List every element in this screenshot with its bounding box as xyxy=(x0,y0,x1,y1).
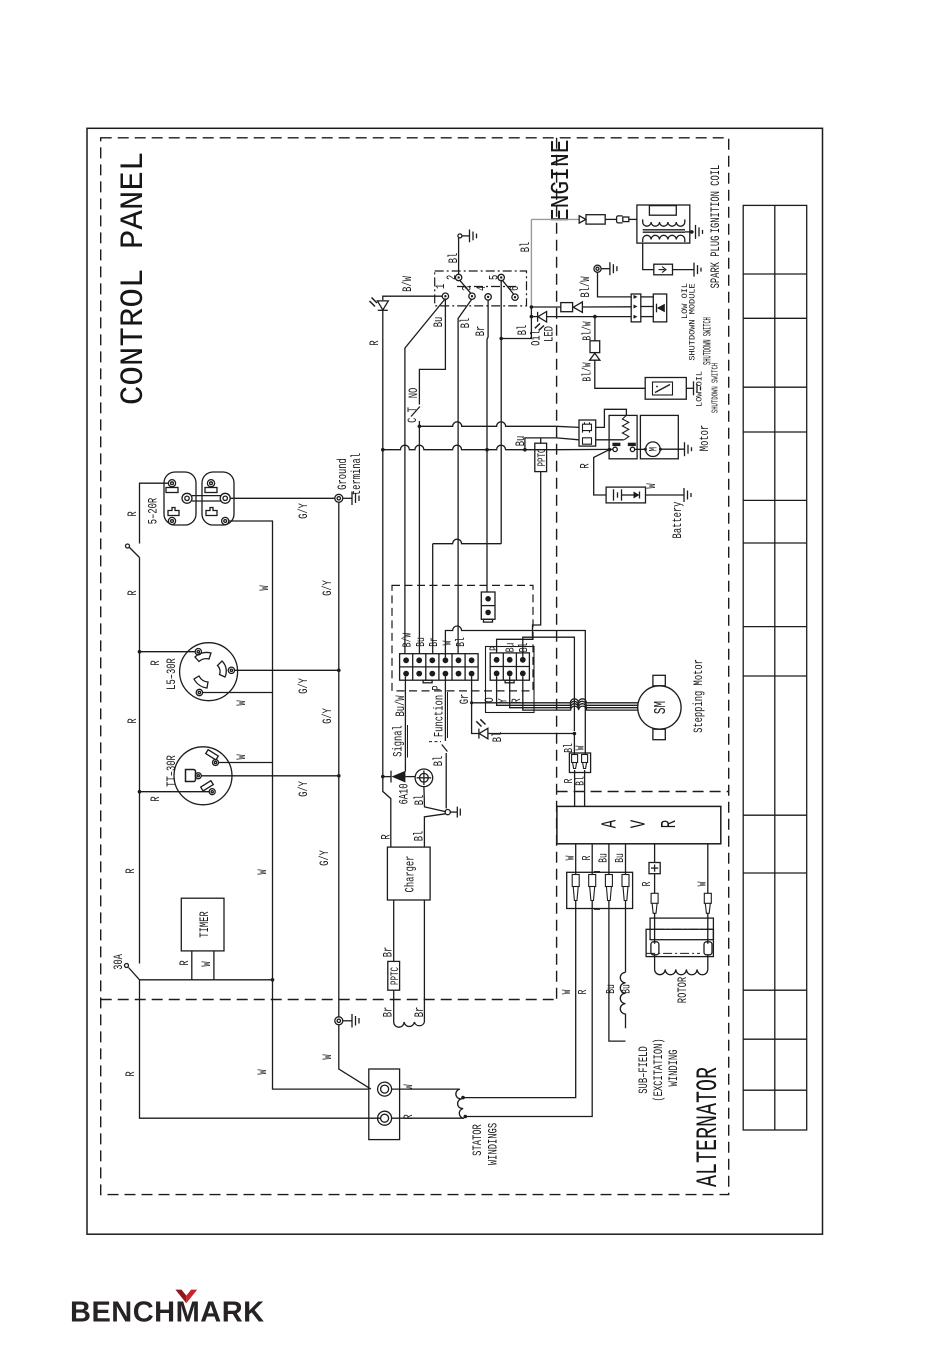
junction R row at Br wire xyxy=(485,448,489,452)
wire stator R to winding xyxy=(392,1117,464,1119)
signal connector pins xyxy=(403,657,474,676)
AVR connector box xyxy=(567,872,633,908)
junction charge LED / Bl xyxy=(573,732,577,736)
svg-text:P: P xyxy=(489,646,502,651)
svg-text:W: W xyxy=(697,881,710,886)
L5-30R screw R xyxy=(195,649,201,655)
parts table grid xyxy=(743,205,807,1130)
wire Bu diagonal from pin 1 xyxy=(405,299,446,654)
svg-text:LED: LED xyxy=(543,326,557,342)
wire W from TT-30R xyxy=(219,762,273,764)
breaker 30A on R bus xyxy=(125,964,129,968)
stepping motor body xyxy=(638,686,681,729)
PPTC (control) body xyxy=(535,443,547,471)
svg-text:G/Y: G/Y xyxy=(298,781,312,797)
wire Bl/W drop to low-oil switch xyxy=(594,317,596,341)
svg-text:Bu: Bu xyxy=(515,436,529,447)
wire Bu field 1 xyxy=(609,900,626,1041)
function underline xyxy=(447,692,449,738)
wire diode to DC terminal xyxy=(405,776,415,778)
stepper harness R xyxy=(513,704,638,708)
connector group dashed box xyxy=(392,585,533,691)
svg-text:Signal: Signal xyxy=(392,725,406,757)
ignition coil core xyxy=(643,229,685,231)
wire R bus lower xyxy=(139,792,141,964)
stepper connector pins xyxy=(494,657,526,676)
wire R bus to stator xyxy=(140,980,382,1118)
5-20R left outlet top screw xyxy=(168,480,175,487)
svg-text:WINDINGS: WINDINGS xyxy=(487,1123,501,1165)
svg-text:6A10: 6A10 xyxy=(398,783,412,804)
wire signal Bu/W drop xyxy=(404,677,406,761)
svg-text:IGNITION COIL: IGNITION COIL xyxy=(710,165,724,234)
svg-text:R: R xyxy=(127,511,141,516)
wire W from L5-30R to W bus xyxy=(203,692,273,694)
svg-text:Bl: Bl xyxy=(574,776,588,786)
wire AVR Bu lead 1 xyxy=(608,844,610,874)
wires strip to module xyxy=(641,297,654,317)
TT-30R slot bottom xyxy=(201,781,214,791)
stepper harness O xyxy=(472,699,638,703)
wire stator W to winding xyxy=(392,1088,460,1090)
ignition coil box xyxy=(637,205,690,243)
svg-text:B/W: B/W xyxy=(401,632,415,647)
stator winding xyxy=(456,1089,464,1118)
bullet connector (low-oil switch) xyxy=(590,341,600,353)
wire G/Y from L5-30R xyxy=(235,669,339,671)
svg-text:terminal: terminal xyxy=(351,453,365,495)
wire Bl from pin 2 to ground xyxy=(458,238,460,274)
junction R row at Bu drop xyxy=(523,448,527,452)
junction R row at R wire xyxy=(381,448,385,452)
svg-text:CONTROL PANEL: CONTROL PANEL xyxy=(115,152,152,406)
wire G/Y bus xyxy=(338,502,340,1017)
diode 6A10 xyxy=(381,775,385,779)
AVR box xyxy=(557,806,721,843)
wire Br lane down xyxy=(432,544,434,654)
rotor slip ring box lower xyxy=(646,929,713,956)
wire starter row into engine xyxy=(557,426,579,427)
svg-text:Bu: Bu xyxy=(433,317,447,328)
wire W from 5-20R to W bus xyxy=(229,521,273,980)
svg-text:NO: NO xyxy=(408,388,422,399)
junction oil LED tap xyxy=(530,315,534,319)
stepping motor tab top xyxy=(653,675,665,686)
svg-text:W: W xyxy=(562,989,575,994)
svg-text:M: M xyxy=(647,447,660,452)
svg-text:Bl: Bl xyxy=(455,637,469,647)
svg-text:R: R xyxy=(642,882,655,887)
wire function Bl drop xyxy=(444,677,446,742)
function switch blade xyxy=(442,745,448,752)
svg-text:SHUTDOWN MODULE: SHUTDOWN MODULE xyxy=(688,283,698,360)
svg-text:W: W xyxy=(236,700,250,705)
svg-text:WINDING: WINDING xyxy=(668,1049,682,1086)
low oil module box xyxy=(653,294,666,322)
wire O drop xyxy=(497,676,500,705)
wire W col4 top across xyxy=(445,626,585,657)
stepper harness 4 xyxy=(526,706,638,710)
spark plug body xyxy=(654,264,673,275)
pin 2 xyxy=(455,274,461,280)
wire switch to ground xyxy=(686,387,693,389)
rotor winding xyxy=(654,955,656,970)
TIMER box xyxy=(181,898,224,951)
wire oil LED row xyxy=(531,316,537,318)
svg-text:W: W xyxy=(257,1069,271,1074)
wire charger Bl lead down xyxy=(423,900,425,1022)
switch blade pin5-pin6 xyxy=(502,280,514,294)
svg-text:B/W: B/W xyxy=(402,276,416,292)
svg-text:LOW OIL: LOW OIL xyxy=(695,371,705,407)
wire AVR W2 lead xyxy=(707,844,709,894)
svg-text:W: W xyxy=(565,855,578,860)
svg-text:ALTERNATOR: ALTERNATOR xyxy=(691,1067,725,1187)
ignition coil HT cap xyxy=(649,206,676,216)
svg-text:30A: 30A xyxy=(113,954,127,970)
pin 1 xyxy=(442,293,448,299)
charger box xyxy=(387,847,430,900)
5-20R left outlet hot slot xyxy=(168,508,179,516)
svg-text:W: W xyxy=(259,585,273,590)
wire Bl diagonal from pin 3 xyxy=(458,299,472,654)
svg-text:Bu: Bu xyxy=(598,853,611,863)
wire sender to module pin1 xyxy=(598,272,632,297)
svg-text:BENCHMARK: BENCHMARK xyxy=(70,1297,265,1329)
junction Gr branch xyxy=(470,701,473,704)
wire PPTC to charge coil xyxy=(393,990,395,1022)
svg-text:Bl: Bl xyxy=(448,253,462,264)
pin 3 xyxy=(469,293,475,299)
wire DC terminal down to switch xyxy=(424,787,446,812)
wire pin5 row to Br lane xyxy=(433,539,502,544)
battery box xyxy=(606,487,645,503)
svg-text:Br: Br xyxy=(382,947,396,958)
engine switch inner divider xyxy=(457,286,516,288)
svg-text:W: W xyxy=(442,640,455,645)
wire W bus to stator xyxy=(273,980,369,1089)
junction stator sense W xyxy=(461,1096,465,1100)
jumper connector 2-pin xyxy=(481,592,495,619)
stepper connector housing xyxy=(486,647,535,713)
ground symbol (spark plug) xyxy=(694,263,701,277)
stepping motor tab bottom xyxy=(653,729,665,740)
wire motor to ground xyxy=(660,448,684,450)
DC switch common contact xyxy=(445,810,450,815)
bullet W xyxy=(572,875,579,901)
wire timer W pin xyxy=(213,951,215,980)
wire battery to ground xyxy=(646,494,685,496)
wire B/W pin1 to output LED xyxy=(383,296,442,300)
output LED xyxy=(377,301,388,310)
junction G/Y at TT-30R xyxy=(337,774,341,778)
bullet pair (AVR sense) xyxy=(569,753,590,773)
svg-text:Br: Br xyxy=(414,1007,428,1018)
svg-text:P: P xyxy=(431,685,445,690)
wire ground strap between outlets xyxy=(192,495,221,497)
svg-text:R: R xyxy=(150,660,164,665)
BENCHMARK logo chevron left xyxy=(175,1290,186,1304)
svg-text:1: 1 xyxy=(435,284,449,289)
dashed schematic frame xyxy=(101,138,729,1195)
svg-text:L5–30R: L5–30R xyxy=(166,658,180,690)
svg-text:Bl/W: Bl/W xyxy=(580,276,594,297)
wire Br from pin 4 xyxy=(487,300,488,450)
charge coil xyxy=(394,1022,425,1027)
svg-text:Bu: Bu xyxy=(416,637,429,647)
wire AVR fuse lead xyxy=(654,844,656,863)
brush right xyxy=(704,942,712,955)
svg-text:Bl: Bl xyxy=(517,325,531,336)
receptacle 5-20R duplex right outlet body xyxy=(202,472,234,525)
svg-text:SHUTDOWN SWITCH: SHUTDOWN SWITCH xyxy=(702,317,715,365)
wire jumper to R row xyxy=(486,450,488,592)
5-20R right outlet top screw xyxy=(207,480,214,487)
oil sender terminal xyxy=(594,265,601,272)
bullet connector (shutdown) xyxy=(561,303,573,312)
DC output terminal xyxy=(415,769,433,787)
junction CT contact xyxy=(418,425,422,429)
svg-text:Oil: Oil xyxy=(530,330,544,346)
engine switch connector box xyxy=(435,271,527,306)
svg-text:W: W xyxy=(646,483,660,488)
bullet R xyxy=(589,875,596,901)
svg-text:V: V xyxy=(628,820,652,829)
wire shutdown switch row xyxy=(531,306,560,308)
TT-30R center screw xyxy=(195,773,201,779)
wire charge LED right to Bl xyxy=(488,733,575,735)
5-20R right outlet neutral slot xyxy=(205,488,217,493)
relay contacts xyxy=(613,447,617,451)
svg-text:Bl/W: Bl/W xyxy=(581,321,595,341)
wire relay to starter motor xyxy=(635,448,647,450)
outer drawing frame xyxy=(87,128,823,1234)
wire R drop xyxy=(523,676,526,710)
stepper harness Y xyxy=(500,701,638,705)
junction pin5 wire / Bl link xyxy=(499,337,503,341)
wire signal drop into diode node xyxy=(404,760,406,771)
svg-text:Bl: Bl xyxy=(414,795,428,806)
pin 5 xyxy=(498,274,504,280)
bullet Bu2 xyxy=(622,875,629,901)
svg-text:TIMER: TIMER xyxy=(199,911,213,938)
wire sense pair to AVR xyxy=(574,770,576,806)
ground symbol at ground terminal xyxy=(343,492,359,506)
5-20R left outlet ground pin xyxy=(182,493,192,503)
wire R from LED down xyxy=(382,310,384,449)
wire AVR R lead xyxy=(591,844,593,874)
svg-text:Bl: Bl xyxy=(518,643,532,653)
receptacle 5-20R duplex left outlet body xyxy=(164,472,196,525)
ground symbol (DC switch) xyxy=(450,807,460,818)
wire G/Y from 5-20R to ground terminal xyxy=(230,497,335,499)
svg-text:Bu: Bu xyxy=(505,643,518,653)
svg-text:G/Y: G/Y xyxy=(322,708,336,724)
svg-text:Motor: Motor xyxy=(699,425,713,451)
brush left xyxy=(651,942,659,955)
svg-text:5: 5 xyxy=(488,275,502,280)
ignition coil primary winding xyxy=(643,219,685,226)
pin 4 xyxy=(485,294,491,300)
svg-text:G/Y: G/Y xyxy=(298,678,312,694)
DC switch lower blade xyxy=(424,814,445,847)
svg-text:W: W xyxy=(322,1054,336,1059)
wire G/Y from TT-30R xyxy=(201,775,338,777)
wire starter signal row xyxy=(419,422,556,427)
svg-text:ENGINE: ENGINE xyxy=(548,139,576,222)
ground terminal (panel) xyxy=(335,494,343,502)
svg-text:5–20R: 5–20R xyxy=(147,498,161,525)
svg-text:SM: SM xyxy=(652,701,671,714)
fuse (rotor) xyxy=(649,863,660,874)
svg-text:Bl: Bl xyxy=(433,756,447,767)
wire coil to ground xyxy=(685,231,694,233)
svg-text:R: R xyxy=(125,868,139,873)
svg-text:Bl: Bl xyxy=(460,318,474,329)
svg-text:R: R xyxy=(369,340,383,345)
bullet pair (starter) xyxy=(579,420,596,446)
wire ignition feed (grey) xyxy=(531,218,579,220)
svg-text:R: R xyxy=(179,960,193,965)
wire Bl sense down to bullet xyxy=(573,734,575,755)
stepper connector 3x2 xyxy=(490,653,529,683)
5-20R left outlet bottom screw xyxy=(168,517,175,524)
wire R to battery xyxy=(594,450,610,495)
TT-30R slot top xyxy=(206,750,219,760)
svg-text:Bl: Bl xyxy=(492,732,506,743)
TT-30R screw top xyxy=(213,760,219,766)
TT-30R screw bottom xyxy=(209,789,215,795)
svg-text:Br: Br xyxy=(382,1007,396,1018)
svg-text:R: R xyxy=(582,856,595,861)
wire R to charger xyxy=(383,450,391,847)
control panel / alternator dashed divider xyxy=(101,999,557,1001)
sub-field winding xyxy=(620,972,625,1028)
5-20R left outlet neutral slot xyxy=(166,488,178,493)
ground symbol (oil sender) xyxy=(601,262,617,275)
ground symbol (battery) xyxy=(684,488,691,502)
function mechanical dashed link xyxy=(429,741,441,743)
wire W sense down to bullet xyxy=(584,649,586,754)
signal connector 6x2 xyxy=(400,654,479,683)
module diode xyxy=(657,304,665,313)
wire R sense drop xyxy=(467,900,592,1117)
junction W bus at timer row xyxy=(271,978,275,982)
stator connector box xyxy=(369,1069,400,1140)
junction R/L5-30R xyxy=(138,650,142,654)
wire R to L5-30R xyxy=(140,651,196,653)
junction G/Y bus at L5-30R xyxy=(337,669,341,673)
svg-text:C T: C T xyxy=(407,407,421,423)
junction oil row / low-oil switch xyxy=(593,315,597,319)
svg-text:STATOR: STATOR xyxy=(472,1124,486,1156)
wire R row to relay contact xyxy=(557,448,613,450)
starter relay box xyxy=(609,415,637,458)
5-20R right outlet bottom screw xyxy=(222,517,229,524)
svg-text:Ground: Ground xyxy=(337,458,351,490)
bullet (rotor W) xyxy=(704,893,711,913)
ground symbol (ignition coil) xyxy=(696,225,703,239)
stator R pin xyxy=(378,1111,392,1125)
wire Gr col6 drop xyxy=(471,677,473,703)
wire Bl 3x2 col3 top across xyxy=(523,637,575,731)
ground terminal (neutral bond) xyxy=(335,1017,343,1025)
wire bullets to brushes xyxy=(654,913,656,944)
wire bullet to relay lower xyxy=(596,439,624,441)
wire CT lower contact xyxy=(418,421,420,654)
bullet (rotor R) xyxy=(651,893,658,913)
PPTC (charge coil) body xyxy=(388,961,400,990)
battery plates xyxy=(614,489,622,500)
wire R bus mid xyxy=(139,652,141,792)
engine / alternator dashed divider xyxy=(557,791,729,793)
ground symbol at neutral bond xyxy=(343,1014,359,1028)
ground symbol (starter motor) xyxy=(685,442,692,456)
switch CT NO blade xyxy=(411,407,420,417)
wire W sense drop xyxy=(465,900,576,1098)
wire fuse to brush bullet xyxy=(654,874,656,894)
wire coil to spark plug xyxy=(643,243,654,270)
breaker on R bus (5-20R) xyxy=(126,544,130,548)
svg-text:R: R xyxy=(127,718,141,723)
svg-text:Stepping Motor: Stepping Motor xyxy=(693,659,707,733)
wire charger Br lead xyxy=(393,900,395,961)
bullet Bu1 xyxy=(605,875,612,901)
svg-text:4: 4 xyxy=(476,286,490,291)
pin 6 xyxy=(512,294,518,300)
L5-30R screw G xyxy=(228,667,234,673)
svg-text:W: W xyxy=(575,745,588,750)
control panel / engine dashed divider xyxy=(556,138,558,1000)
charge LED xyxy=(479,728,488,739)
battery diode xyxy=(634,492,640,499)
svg-text:Battery: Battery xyxy=(672,501,686,538)
low oil shutdown switch box xyxy=(645,378,686,400)
junction stator sense R xyxy=(464,1115,468,1119)
rotor slip ring box upper xyxy=(650,918,713,940)
stator W pin xyxy=(378,1082,392,1096)
wire AVR Bu lead 2 xyxy=(625,844,627,874)
svg-text:R: R xyxy=(150,796,164,801)
svg-text:Bl/W: Bl/W xyxy=(581,362,595,382)
ground symbol (engine switch) xyxy=(462,230,477,243)
svg-text:Bu: Bu xyxy=(615,853,628,863)
junction shutdown tap xyxy=(530,305,534,309)
wire Bl link to ignition feed xyxy=(501,307,531,339)
noise suppressor arrow xyxy=(579,216,586,223)
svg-text:Br: Br xyxy=(429,637,442,647)
svg-text:PPTC: PPTC xyxy=(389,967,402,985)
svg-text:R: R xyxy=(579,463,593,468)
svg-text:O: O xyxy=(484,697,498,702)
wire pin1 down to CT switch xyxy=(419,299,445,404)
svg-text:Br: Br xyxy=(475,326,489,337)
svg-text:G/Y: G/Y xyxy=(319,850,333,866)
wire charge LED left xyxy=(472,703,479,734)
BENCHMARK logo chevron right xyxy=(186,1290,197,1304)
oil LED xyxy=(538,312,547,323)
starter motor M xyxy=(646,442,661,457)
svg-text:2: 2 xyxy=(446,275,460,280)
svg-text:SUB–FIELD: SUB–FIELD xyxy=(638,1046,652,1094)
wire timer feed row xyxy=(140,979,273,981)
svg-text:W: W xyxy=(257,869,271,874)
svg-text:W: W xyxy=(236,754,250,759)
svg-text:Bl: Bl xyxy=(413,831,427,842)
ground symbol (low-oil switch) xyxy=(694,381,701,395)
switch blade pin2-pin3 xyxy=(460,280,471,293)
svg-text:R: R xyxy=(659,820,683,829)
